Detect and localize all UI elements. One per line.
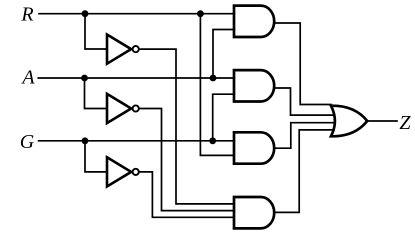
AND gate 1 xyxy=(234,6,274,37)
wire AND4 output to OR input 4 xyxy=(272,130,332,213)
wire OR output to Z xyxy=(368,120,398,122)
OR gate xyxy=(331,106,367,137)
AND gate 4 xyxy=(234,197,274,228)
junction A to NOT2 xyxy=(81,75,88,82)
inverter NOT1 bubble xyxy=(133,46,139,52)
wire AND1 output to OR input 1 xyxy=(272,23,331,105)
wire G junction to AND2 lower input xyxy=(213,94,234,141)
svg-text:R: R xyxy=(20,4,33,26)
wire G input line xyxy=(39,140,234,142)
junction A to AND1 xyxy=(210,75,217,82)
inverter NOT1 triangle xyxy=(107,35,131,64)
inverter NOT3 bubble xyxy=(133,169,139,175)
svg-text:G: G xyxy=(20,131,35,153)
junction R to NOT1 xyxy=(82,10,89,17)
inverter NOT2 triangle xyxy=(107,94,131,123)
wire R input line xyxy=(39,13,234,15)
wire R junction to AND3 lower input xyxy=(200,14,234,156)
wire AND3 output to OR input 3 xyxy=(272,123,334,149)
wire R to NOT1 input xyxy=(85,14,108,49)
AND gate 3 xyxy=(234,132,274,163)
wire NOT1 output to AND4 input 1 xyxy=(139,49,234,204)
wire A input line xyxy=(38,77,234,79)
inverter NOT2 bubble xyxy=(133,105,139,111)
inverter NOT3 triangle xyxy=(107,157,131,186)
wire A to NOT2 input xyxy=(85,78,108,109)
wire G to NOT3 input xyxy=(85,141,108,172)
wire NOT3 output to AND4 input 3 xyxy=(139,172,234,217)
wire AND2 output to OR input 2 xyxy=(272,88,334,115)
junction G to AND2 xyxy=(209,137,216,144)
junction G to NOT3 xyxy=(82,137,89,144)
svg-text:Z: Z xyxy=(399,112,411,134)
junction R to AND3 xyxy=(197,10,204,17)
wire NOT2 output to AND4 input 2 xyxy=(139,109,234,211)
wire A junction to AND1 lower input xyxy=(213,30,234,79)
svg-text:A: A xyxy=(20,67,35,89)
AND gate 2 xyxy=(234,70,274,101)
